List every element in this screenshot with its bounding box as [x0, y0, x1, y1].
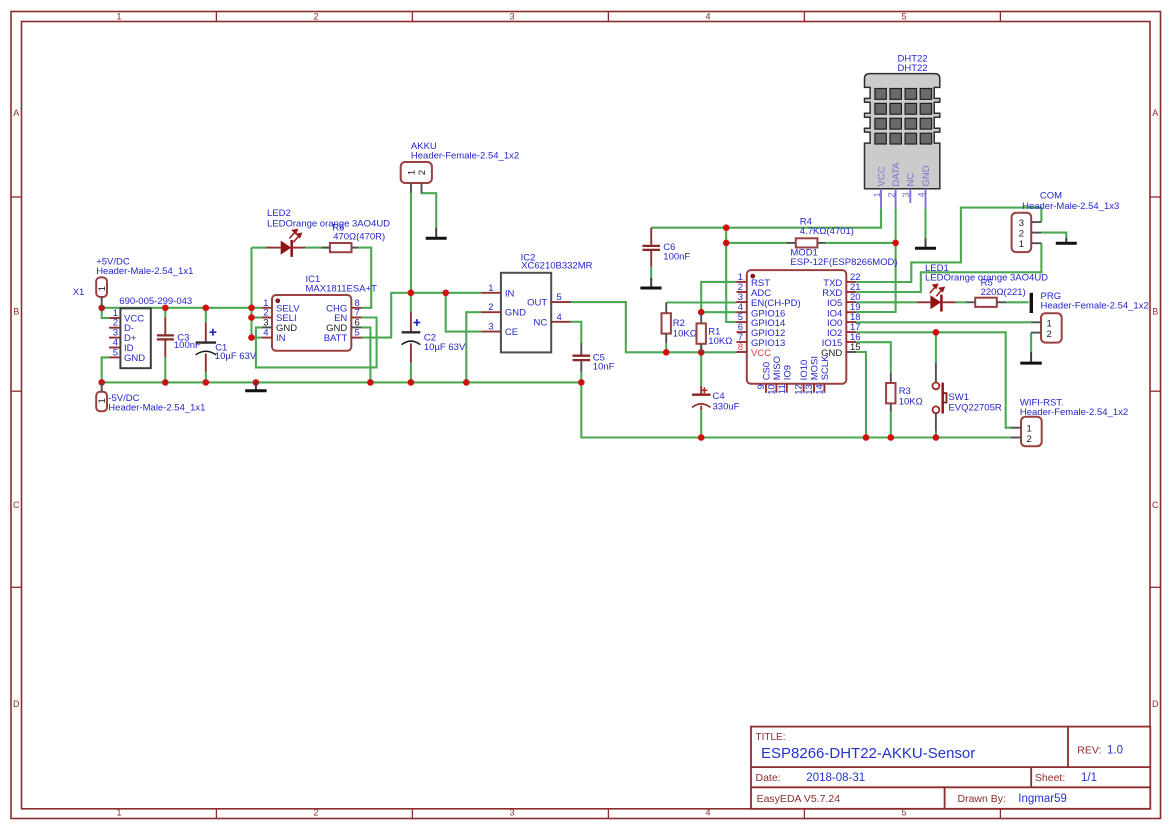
- svg-text:14: 14: [814, 384, 825, 395]
- border ticks left: [11, 197, 22, 587]
- svg-text:XC6210B332MR: XC6210B332MR: [521, 261, 592, 272]
- wire COM2 to ground: [1041, 233, 1066, 238]
- wire RST riser and GPIO16 link: [701, 282, 736, 312]
- wire C6 bottom link: [650, 267, 652, 278]
- svg-text:3: 3: [509, 807, 514, 817]
- ground at PRG pin2: [1020, 352, 1042, 363]
- svg-text:B: B: [1152, 307, 1158, 317]
- svg-text:5: 5: [113, 347, 118, 358]
- svg-text:DATA: DATA: [891, 162, 902, 187]
- wire LED1 cathode to R5: [956, 301, 967, 303]
- svg-text:C: C: [1152, 500, 1159, 510]
- wire R2 bottom link: [665, 343, 667, 352]
- wire C6 top link: [651, 208, 881, 228]
- svg-text:220Ω(221): 220Ω(221): [981, 287, 1026, 298]
- wire LED2 anode segment: [252, 247, 268, 249]
- wire AKKU pin1 drop: [410, 193, 412, 293]
- svg-text:10nF: 10nF: [593, 362, 615, 373]
- svg-text:2: 2: [313, 807, 318, 817]
- svg-text:2: 2: [417, 170, 428, 175]
- svg-text:Drawn By:: Drawn By:: [958, 793, 1006, 805]
- wire R5 right segment: [1006, 301, 1028, 303]
- svg-text:10: 10: [766, 384, 777, 395]
- wire LED2 left riser to SELV node: [250, 248, 252, 338]
- wire R1 bottom link: [700, 344, 702, 352]
- junction dots on left ground rail: [98, 379, 584, 386]
- svg-text:100nF: 100nF: [663, 251, 690, 262]
- svg-text:Ingmar59: Ingmar59: [1018, 793, 1067, 805]
- svg-text:2: 2: [1027, 434, 1032, 445]
- wire IC1 GND3 to EN7 loop: [256, 318, 377, 368]
- svg-text:VCC: VCC: [751, 348, 771, 359]
- svg-text:4: 4: [916, 192, 927, 197]
- wire LED2 cathode to R6: [305, 247, 330, 249]
- svg-text:MAX1811ESA+T: MAX1811ESA+T: [306, 284, 378, 295]
- border ticks right: [1150, 197, 1161, 587]
- connector PRG Header-Female-2.54_1x2: [1031, 291, 1149, 343]
- svg-text:1: 1: [97, 398, 108, 403]
- wire R2 top to ESP EN: [666, 301, 736, 303]
- wire R3 bottom branch: [890, 412, 892, 438]
- border ticks top: [216, 12, 1000, 22]
- svg-text:10KΩ: 10KΩ: [899, 397, 923, 408]
- svg-text:C: C: [13, 500, 20, 510]
- svg-text:1: 1: [116, 12, 121, 22]
- title block: [751, 727, 1150, 809]
- svg-text:1: 1: [488, 283, 493, 294]
- wire X1 VCC jog: [102, 308, 109, 318]
- svg-text:SCLK: SCLK: [820, 355, 831, 380]
- junction dots at DHT supply and R4: [723, 224, 899, 246]
- svg-text:5: 5: [557, 292, 562, 303]
- wire node to IC2 IN: [446, 292, 481, 294]
- svg-text:BATT: BATT: [324, 333, 348, 344]
- svg-text:15: 15: [850, 342, 861, 353]
- wire BATT to AKKU node: [362, 293, 446, 338]
- svg-text:330uF: 330uF: [713, 401, 740, 412]
- LED LED1 orange: [917, 263, 1048, 311]
- svg-text:10µF 63V: 10µF 63V: [424, 342, 466, 353]
- svg-text:Header-Male-2.54_1x1: Header-Male-2.54_1x1: [108, 402, 205, 413]
- wire C4 bottom branch: [700, 410, 702, 437]
- LED LED2 orange: [267, 208, 391, 257]
- junction dots at IC1 SELI and IN pins: [248, 314, 255, 341]
- wire SW1 bottom branch: [935, 431, 937, 437]
- terminal bar at R5 right: [1030, 293, 1033, 313]
- svg-text:1: 1: [406, 170, 417, 175]
- junction dots on right ground rail: [698, 434, 939, 441]
- svg-text:1.0: 1.0: [1107, 745, 1123, 757]
- svg-text:2: 2: [1047, 329, 1052, 340]
- svg-text:REV:: REV:: [1077, 745, 1101, 757]
- junction dots on 3V3 rail: [663, 309, 705, 356]
- svg-text:GND: GND: [505, 308, 526, 319]
- wire GND rail jog down and right GND rail: [581, 382, 1011, 437]
- svg-text:2018-08-31: 2018-08-31: [806, 772, 865, 784]
- svg-text:CE: CE: [505, 327, 518, 338]
- svg-text:4: 4: [705, 12, 710, 22]
- svg-text:3: 3: [1019, 218, 1024, 229]
- wire RXD to COM1: [856, 243, 1041, 292]
- svg-text:TITLE:: TITLE:: [756, 732, 786, 743]
- svg-text:2: 2: [1019, 229, 1024, 240]
- connector AKKU Header-Female-2.54_1x2: [401, 141, 519, 193]
- svg-text:13: 13: [804, 384, 815, 395]
- svg-text:Header-Male-2.54_1x3: Header-Male-2.54_1x3: [1022, 201, 1119, 212]
- svg-text:Header-Female-2.54_1x2: Header-Female-2.54_1x2: [411, 151, 519, 162]
- border ticks bottom: [216, 809, 1000, 819]
- svg-text:470Ω(470R): 470Ω(470R): [333, 232, 385, 243]
- wire TXD to COM3: [856, 208, 1041, 282]
- svg-text:9: 9: [756, 384, 767, 389]
- svg-text:EasyEDA V5.7.24: EasyEDA V5.7.24: [757, 793, 841, 805]
- resistor R5 220R: [966, 278, 1026, 307]
- wire C5 bottom branch: [580, 372, 582, 383]
- wire IO5 to LED1: [856, 301, 917, 303]
- svg-text:Sheet:: Sheet:: [1035, 772, 1065, 784]
- svg-text:LEDOrange orange 3AO4UD: LEDOrange orange 3AO4UD: [267, 219, 390, 230]
- svg-text:4: 4: [705, 807, 710, 817]
- connector +5V/DC Header-Male-2.54_1x1: [96, 257, 193, 308]
- wire DHT GND drop: [924, 208, 926, 238]
- wire C1 bottom branch: [205, 372, 207, 383]
- op-amp IC1 MAX1811ESA+T: [262, 274, 377, 351]
- svg-text:1: 1: [872, 192, 883, 197]
- svg-text:4: 4: [263, 328, 268, 339]
- switch SW1 EVQ22705R: [933, 363, 1002, 432]
- connector WIFI-RST Header-Female-2.54_1x2: [1011, 397, 1128, 446]
- wire CE riser: [446, 293, 481, 332]
- svg-text:A: A: [1152, 108, 1158, 118]
- svg-text:10KΩ: 10KΩ: [673, 329, 697, 340]
- svg-text:B: B: [13, 307, 19, 317]
- resistor R4 4.7K: [787, 217, 854, 248]
- wire SELI stub link: [252, 316, 262, 318]
- svg-text:DHT22: DHT22: [898, 63, 928, 74]
- svg-text:4: 4: [557, 312, 562, 323]
- svg-text:IO9: IO9: [782, 365, 793, 380]
- svg-text:CS0: CS0: [762, 362, 773, 380]
- svg-text:EVQ22705R: EVQ22705R: [948, 403, 1001, 414]
- resistor R3 10K: [886, 373, 923, 412]
- wire SELV stub link: [252, 307, 262, 309]
- capacitor C2 10uF 63V polarized: [402, 312, 466, 363]
- svg-text:5: 5: [901, 12, 906, 22]
- svg-text:10KΩ: 10KΩ: [708, 336, 732, 347]
- border row letters left: [13, 108, 20, 709]
- wire IC2 OUT to 3V3 rail: [571, 302, 737, 352]
- svg-text:Header-Male-2.54_1x1: Header-Male-2.54_1x1: [96, 266, 193, 277]
- connector -5V/DC Header-Male-2.54_1x1: [96, 382, 205, 413]
- wire IN stub link: [252, 337, 262, 339]
- wire R6 right to CHG riser: [359, 248, 372, 308]
- svg-text:IN: IN: [505, 288, 515, 299]
- ground at DHT22 pin4: [915, 238, 936, 248]
- connector X1 690-005-299-043: [73, 287, 193, 368]
- resistor R1 10K: [697, 314, 733, 353]
- wire C2 bottom branch: [410, 363, 412, 383]
- svg-text:OUT: OUT: [527, 298, 547, 309]
- svg-text:1/1: 1/1: [1081, 772, 1097, 784]
- svg-text:ESP8266-DHT22-AKKU-Sensor: ESP8266-DHT22-AKKU-Sensor: [761, 745, 975, 762]
- wire R1 top link: [700, 312, 702, 314]
- wire C3 top branch: [164, 308, 166, 318]
- svg-text:8: 8: [738, 342, 743, 353]
- svg-text:MOSI: MOSI: [810, 356, 821, 380]
- ground at C6: [640, 278, 661, 288]
- svg-text:ESP-12F(ESP8266MOD): ESP-12F(ESP8266MOD): [790, 257, 897, 268]
- svg-text:NC: NC: [533, 317, 547, 328]
- svg-text:1: 1: [116, 807, 121, 817]
- svg-text:GND: GND: [921, 165, 932, 186]
- sensor DHT22: [865, 54, 940, 209]
- wire IC2 NC to C5: [571, 322, 581, 343]
- capacitor C5 10nF: [573, 343, 615, 373]
- wire IC1 GND6 to rail: [362, 327, 371, 382]
- svg-text:690-005-299-043: 690-005-299-043: [119, 296, 192, 307]
- svg-text:Header-Female-2.54_1x2: Header-Female-2.54_1x2: [1020, 407, 1128, 418]
- wire IO2 to WIFI-RST1: [856, 332, 1011, 427]
- junction dots at battery node: [408, 290, 449, 297]
- svg-text:12: 12: [794, 384, 805, 395]
- module MOD1 ESP-12F(ESP8266MOD): [737, 248, 898, 395]
- junction dots on +5V top rail: [98, 305, 254, 312]
- wire C4 top branch: [700, 352, 702, 386]
- svg-text:1: 1: [1047, 319, 1052, 330]
- wire SW1 top branch: [935, 332, 937, 362]
- wire C3 bottom branch: [164, 357, 166, 382]
- svg-text:1: 1: [97, 286, 108, 291]
- svg-text:MISO: MISO: [772, 356, 783, 380]
- svg-text:Header-Female-2.54_1x2: Header-Female-2.54_1x2: [1041, 301, 1149, 312]
- svg-text:11: 11: [777, 384, 788, 394]
- wire R4 left segment: [726, 242, 786, 244]
- svg-text:2: 2: [886, 192, 897, 197]
- svg-text:NC: NC: [906, 173, 917, 187]
- svg-text:2: 2: [313, 12, 318, 22]
- svg-text:5: 5: [355, 328, 360, 339]
- svg-text:GND: GND: [124, 353, 145, 364]
- svg-text:COM: COM: [1040, 190, 1062, 201]
- wire IO0 to PRG1: [856, 321, 1031, 323]
- wire C1 top branch: [205, 308, 207, 323]
- wire C2 top branch: [410, 293, 412, 312]
- capacitor C4 330uF polarized: [692, 386, 740, 413]
- svg-text:IN: IN: [276, 333, 286, 344]
- border column numbers top: [116, 12, 906, 22]
- svg-text:Date:: Date:: [756, 772, 781, 784]
- svg-text:A: A: [13, 108, 19, 118]
- capacitor C1 10uF 63V polarized: [196, 323, 257, 372]
- svg-text:3: 3: [901, 192, 912, 197]
- wire GND15 to rail: [856, 352, 866, 438]
- svg-text:LED2: LED2: [267, 208, 291, 219]
- svg-text:D: D: [13, 699, 20, 709]
- border row letters right: [1152, 108, 1159, 709]
- wire PRG2 to ground: [1030, 333, 1032, 352]
- wire left GND rail: [102, 381, 582, 383]
- resistor R2 10K: [662, 303, 697, 344]
- wire +5V top rail: [102, 307, 252, 309]
- wire DHT DATA drop to IO4: [856, 208, 895, 312]
- svg-text:R2: R2: [673, 318, 685, 329]
- wire R4 right to DATA: [826, 242, 896, 244]
- svg-text:D: D: [1152, 699, 1159, 709]
- svg-text:3: 3: [488, 322, 493, 333]
- wire IO15 to R3: [856, 342, 891, 373]
- wire IC2 GND2 to rail: [466, 312, 481, 382]
- connector COM Header-Male-2.54_1x3: [1012, 190, 1120, 252]
- svg-text:1: 1: [1019, 239, 1024, 250]
- svg-text:10µF 63V: 10µF 63V: [215, 351, 257, 362]
- svg-text:2: 2: [488, 302, 493, 313]
- svg-text:4.7KΩ(4701): 4.7KΩ(4701): [800, 226, 854, 237]
- ground main rail: [245, 382, 266, 390]
- wire AKKU pin2 to ground: [422, 193, 437, 228]
- ground at COM pin2: [1056, 238, 1077, 244]
- wire X1 GND jog: [102, 357, 109, 382]
- junction dot at SW1 top: [933, 329, 940, 336]
- svg-text:X1: X1: [73, 287, 85, 298]
- voltage regulator IC2 XC6210B332MR: [481, 252, 593, 352]
- capacitor C6 100nF: [642, 228, 690, 267]
- svg-text:3: 3: [509, 12, 514, 22]
- wire GPIO14 riser to DHT VCC net: [726, 228, 736, 322]
- svg-text:VCC: VCC: [876, 166, 887, 186]
- capacitor C3 100nF: [157, 317, 201, 357]
- border column numbers bottom: [116, 807, 906, 817]
- svg-text:IO10: IO10: [799, 360, 810, 381]
- ground at AKKU pin2: [426, 228, 447, 239]
- resistor R6 470R: [322, 223, 386, 253]
